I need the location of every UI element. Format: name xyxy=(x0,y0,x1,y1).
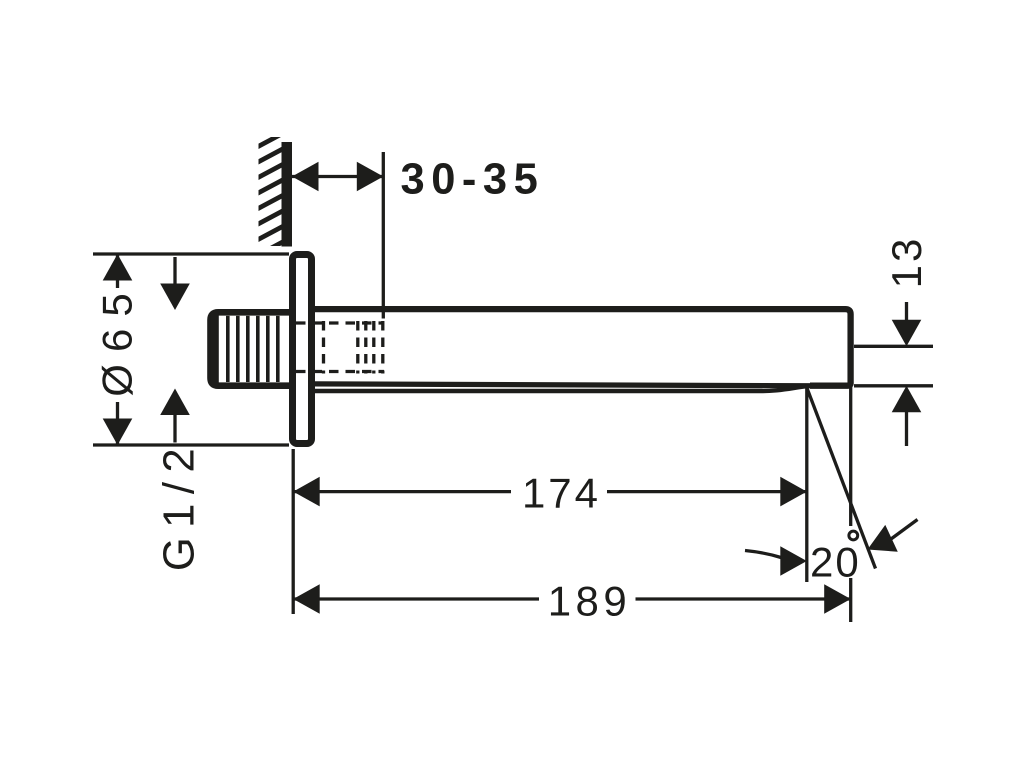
dimension G1/2: bottom stem xyxy=(173,415,176,443)
extension line at spout tip (189) upper xyxy=(849,386,852,526)
dimension Ø65: dimension line bottom xyxy=(116,402,119,445)
dimension 30-35: dimension line xyxy=(292,175,383,178)
dimension 20deg: right arrowhead xyxy=(861,525,898,563)
dimension Ø65: top extension line xyxy=(93,252,289,255)
extension line at spout tip (189) lower xyxy=(849,578,852,622)
dimension 174: right arrowhead xyxy=(780,477,807,507)
dimension G1/2: top arrowhead xyxy=(160,284,190,311)
thread nipple G1/2 xyxy=(211,312,301,385)
svg-text:30-35: 30-35 xyxy=(401,156,545,204)
dimension 13: bottom arrowhead xyxy=(892,386,922,413)
dimension 189: dimension line left xyxy=(293,597,539,600)
hidden thread (dashed) xyxy=(296,321,384,374)
spout body top and right edge xyxy=(313,309,851,386)
degree symbol circle xyxy=(849,531,858,540)
dimension 13: top stem xyxy=(905,302,908,322)
svg-text:Ø65: Ø65 xyxy=(94,281,141,396)
extension line at spout outlet (174) xyxy=(805,388,808,582)
dimension Ø65: top arrowhead xyxy=(103,254,133,281)
svg-text:20: 20 xyxy=(810,539,861,586)
dimension 174: dimension line right xyxy=(607,490,807,493)
spout body bottom edge xyxy=(313,384,846,386)
dimension 189: dimension line right xyxy=(636,597,851,600)
dimension 20deg: right leader tail xyxy=(891,520,918,540)
dimension 20deg: left arrowhead xyxy=(780,546,807,576)
flange (wall escutcheon) xyxy=(293,255,312,444)
dimension 30-35: left arrowhead xyxy=(292,162,319,192)
dimension 13: top arrowhead xyxy=(892,320,922,347)
dimension 13: bottom stem xyxy=(905,412,908,446)
dimension 189: left arrowhead xyxy=(293,584,320,614)
20 degree slope line xyxy=(806,385,876,569)
dimension 174: left arrowhead xyxy=(293,477,320,507)
dimension 20deg: left leader tail xyxy=(745,551,781,558)
dimension G1/2: bottom arrowhead xyxy=(160,389,190,416)
dimension Ø65: bottom extension line xyxy=(93,443,289,446)
dimension 174: dimension line left xyxy=(293,490,511,493)
svg-text:189: 189 xyxy=(548,578,632,625)
dimension Ø65: bottom arrowhead xyxy=(103,419,133,446)
spout underside lip xyxy=(313,386,811,391)
svg-text:G1/2: G1/2 xyxy=(156,439,204,571)
dimension 13: bottom extension line xyxy=(854,384,933,387)
wall line xyxy=(282,142,293,247)
dimension 189: right arrowhead xyxy=(824,584,851,614)
dimension Ø65: dimension line top xyxy=(116,254,119,288)
svg-text:174: 174 xyxy=(522,470,601,517)
svg-text:13: 13 xyxy=(883,236,930,289)
wall hatching xyxy=(257,132,285,255)
dimension 30-35: right arrowhead xyxy=(357,162,384,192)
dimension 30-35: extension line xyxy=(382,152,385,319)
dimension 13: top extension line xyxy=(854,345,933,348)
left extension line (wall face) xyxy=(292,449,295,614)
dimension G1/2: top stem xyxy=(173,257,176,285)
